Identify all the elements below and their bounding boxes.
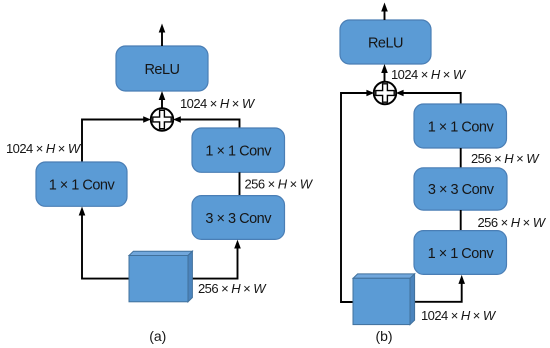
wire: right top conv to adder (a) — [173, 116, 239, 128]
svg-text:3 × 3 Conv: 3 × 3 Conv — [428, 182, 495, 198]
svg-text:1 × 1 Conv: 1 × 1 Conv — [428, 246, 495, 262]
svg-text:256 × H × W: 256 × H × W — [471, 151, 540, 166]
svg-text:1024 × H × W: 1024 × H × W — [180, 96, 256, 111]
wire: connector 2 (b) — [460, 210, 462, 231]
svg-text:1024 × H × W: 1024 × H × W — [421, 308, 497, 323]
wire: output arrow above ReLU (a) — [159, 24, 166, 47]
adder node (b) — [374, 82, 396, 104]
box 1x1 Conv bottom (b) — [414, 231, 507, 275]
svg-text:(b): (b) — [375, 328, 392, 344]
svg-text:(a): (a) — [149, 328, 166, 344]
wire: output arrow above ReLU (b) — [381, 3, 388, 21]
svg-text:3 × 3 Conv: 3 × 3 Conv — [205, 211, 272, 227]
svg-text:256 × H × W: 256 × H × W — [198, 281, 267, 296]
svg-text:ReLU: ReLU — [144, 62, 179, 78]
wire: cube to bottom conv (b) — [415, 275, 465, 302]
adder node (a) — [151, 108, 173, 130]
box 1x1 Conv top (b) — [414, 104, 507, 148]
wire: connector between right boxes (a) — [239, 172, 241, 195]
svg-text:1024 × H × W: 1024 × H × W — [391, 67, 467, 82]
wire: adder to ReLU arrow (a) — [159, 91, 166, 108]
svg-text:1 × 1 Conv: 1 × 1 Conv — [428, 119, 495, 135]
wire: skip connection left (b) — [341, 90, 374, 302]
box 3x3 Conv (b) — [414, 168, 507, 210]
box 3x3 Conv (a) — [192, 196, 285, 240]
wire: cube to 3x3 conv (a) — [192, 240, 240, 279]
wire: cube to left conv (a) — [79, 207, 129, 279]
svg-text:256 × H × W: 256 × H × W — [245, 176, 314, 191]
box ReLU (b) — [340, 20, 431, 64]
wire: top conv to adder (b) — [396, 90, 461, 104]
svg-text:256 × H × W: 256 × H × W — [478, 215, 547, 230]
svg-text:1 × 1 Conv: 1 × 1 Conv — [205, 143, 272, 159]
box 1x1 Conv left (a) — [36, 162, 127, 206]
svg-text:1024 × H × W: 1024 × H × W — [6, 141, 82, 156]
input cube (b) — [353, 274, 415, 325]
box 1x1 Conv right (a) — [192, 128, 285, 172]
input cube (a) — [129, 251, 192, 302]
wire: connector 1 (b) — [460, 148, 462, 168]
svg-text:1 × 1 Conv: 1 × 1 Conv — [49, 178, 116, 194]
wire: left conv to adder (a) — [82, 116, 151, 162]
box ReLU (a) — [116, 46, 208, 91]
wire: adder to ReLU arrow (b) — [381, 64, 388, 82]
svg-text:ReLU: ReLU — [368, 35, 403, 51]
